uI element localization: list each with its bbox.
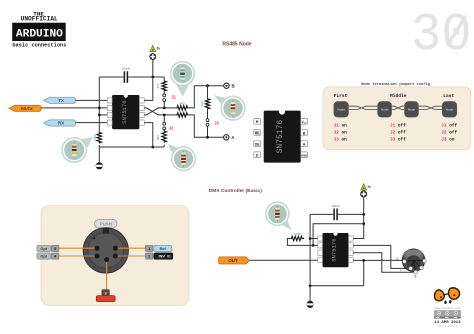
svg-text:OUT: OUT <box>228 258 238 263</box>
wire left bus down <box>98 77 100 132</box>
wire Vcc to RE/DE bus <box>313 224 364 246</box>
XLR female pin hole 3 <box>104 257 109 262</box>
wire ground stub <box>98 147 100 162</box>
wire to pin 1 <box>118 247 146 249</box>
NODE TERMINATION PANEL <box>323 82 471 150</box>
XLR female orientation dot <box>93 237 96 240</box>
wire rail to R1 <box>163 77 165 81</box>
svg-text:Last: Last <box>443 93 454 99</box>
XLR male spokes <box>404 260 424 272</box>
junction rail/+5V <box>151 76 154 79</box>
wire left bus DMX <box>309 214 311 285</box>
svg-text:470: 470 <box>156 83 160 88</box>
wire bottom rail DMX <box>310 285 364 287</box>
svg-text:J3 on: J3 on <box>441 138 455 143</box>
fox logo left eye <box>444 301 446 304</box>
capacitor C2 100nF plates DMX <box>334 209 337 221</box>
XLR male pin 4 <box>420 266 424 270</box>
svg-text:J3: J3 <box>214 120 219 125</box>
wire OUT to pin4 <box>249 259 317 261</box>
jumper J1 <box>163 91 166 106</box>
wire R4 to bottom rail <box>163 145 165 147</box>
svg-text:5: 5 <box>54 247 56 251</box>
svg-text:100nF: 100nF <box>122 67 131 71</box>
svg-text:10k0: 10k0 <box>93 134 97 141</box>
junction GND branch <box>362 259 365 262</box>
svg-text:SN75176: SN75176 <box>276 120 285 154</box>
junction bottom rail / GND pin <box>151 146 154 149</box>
wire pin5 GND to XLR pin1 <box>353 259 402 261</box>
tag INV <box>154 253 173 259</box>
node box Middle 2 <box>404 101 418 117</box>
junction bottom rail DMX <box>309 284 312 287</box>
CC license badge <box>434 310 461 318</box>
wire bus to bottom rail <box>98 145 100 147</box>
XLR male pin 5 <box>423 259 427 263</box>
fox logo brow line <box>444 294 449 296</box>
callout C3 magnifier (560 resistor) <box>168 144 196 171</box>
svg-text:SN75176: SN75176 <box>331 238 338 262</box>
svg-text:INV: INV <box>159 255 166 259</box>
svg-text:J1: J1 <box>171 95 176 100</box>
pinout pin 7 box B <box>301 130 308 136</box>
IC U1 right pin boxes <box>139 98 144 125</box>
node box First <box>334 101 349 117</box>
panel background <box>323 87 471 150</box>
tag number 4 <box>51 253 59 259</box>
svg-text:RX/TX: RX/TX <box>21 106 33 111</box>
capacitor C1 100nF plates <box>124 71 127 83</box>
pill label RX/TX <box>9 105 41 111</box>
wire +5V stub down DMX <box>363 197 365 214</box>
junction rail/+5V DMX <box>362 213 365 216</box>
fox logo left ear <box>434 290 444 301</box>
tag Opt (pin5) <box>37 245 51 251</box>
ground symbol <box>96 162 103 169</box>
pinout pin 2 box RE <box>254 130 261 136</box>
svg-text:Node: Node <box>408 108 416 112</box>
latch notch <box>103 228 109 234</box>
svg-text:A: A <box>231 135 235 140</box>
IC U2 right pin boxes <box>349 236 354 263</box>
svg-text:100nF: 100nF <box>331 204 340 208</box>
svg-text:basic connections: basic connections <box>12 42 66 48</box>
wire pair top line <box>164 107 176 109</box>
IC pinout SN75176 body <box>264 109 301 163</box>
svg-text:R: R <box>256 120 259 124</box>
XLR female pin hole 1 <box>113 246 118 251</box>
svg-text:B: B <box>232 84 236 89</box>
junction B rail / termination <box>206 84 209 87</box>
svg-text:A: A <box>303 142 306 146</box>
wire RX to pin4 <box>75 122 107 124</box>
wire pin6 A to XLR pin3 <box>353 253 413 273</box>
wire to pin 3 <box>106 262 108 290</box>
pinout pin 8 box Vcc <box>301 119 308 125</box>
XLR male connector shell <box>402 249 425 272</box>
junction RE/DE bus <box>312 244 315 247</box>
fox logo right ear dot <box>453 294 455 296</box>
IC U2 SN75176 body DMX <box>323 232 349 268</box>
wire pin7 B to XLR pin2 <box>353 245 409 268</box>
svg-text:5v: 5v <box>368 185 372 189</box>
svg-text:5v: 5v <box>157 46 161 50</box>
svg-text:DE: DE <box>255 142 260 146</box>
tag number 1 <box>145 245 153 251</box>
svg-text:J2 off: J2 off <box>390 131 406 136</box>
wire Vcc rail DMX <box>310 213 364 215</box>
XLR female pin hole 5 <box>95 246 100 251</box>
svg-text:Ref: Ref <box>160 247 167 251</box>
wire pair bottom line <box>164 114 176 116</box>
DMX SECTION <box>209 184 427 308</box>
big grey number 30 <box>411 5 471 65</box>
svg-text:2: 2 <box>148 255 150 259</box>
XLR male pin 2 <box>409 267 413 271</box>
resistor R3 120 zigzag <box>205 98 209 109</box>
XLR female pin hole 2 <box>113 254 118 259</box>
HEADER <box>12 5 471 65</box>
svg-text:J2: J2 <box>169 125 174 130</box>
svg-text:54Ω: 54Ω <box>179 102 185 106</box>
wire DE stub <box>99 114 107 116</box>
pinout pin 1 box R <box>254 119 261 125</box>
node box Middle 1 <box>377 101 391 117</box>
twisted pair First-Middle <box>349 106 378 109</box>
svg-text:560: 560 <box>156 135 160 140</box>
tag number 5 <box>51 245 59 251</box>
callout C2 magnifier (10k resistor) <box>61 137 93 163</box>
svg-text:Opt: Opt <box>40 255 47 259</box>
tag Opt (pin4) <box>37 253 51 259</box>
tag red pin3 <box>96 296 115 302</box>
FOOTER <box>434 288 461 328</box>
svg-text:PUSH: PUSH <box>100 222 112 227</box>
IC U2 left pin boxes <box>318 236 323 263</box>
svg-text:J1 off: J1 off <box>441 124 457 129</box>
jumper J2 <box>163 115 166 130</box>
wire Vcc down to pin8 <box>353 214 364 238</box>
wire termination top stub <box>207 86 209 99</box>
svg-text:Opt: Opt <box>40 247 47 251</box>
svg-text:RX: RX <box>58 121 64 126</box>
power +5V triangle DMX <box>361 184 367 190</box>
resistor R5 54ohm top zigzag <box>176 106 188 110</box>
PUSH latch button <box>95 219 117 228</box>
svg-text:RS485 Node: RS485 Node <box>222 42 251 48</box>
twisted pair Middle-Last <box>419 106 442 109</box>
callout C5 magnifier (100 resistor) <box>265 202 291 231</box>
wire TX to pin1 <box>75 99 107 101</box>
jumper J3 <box>206 109 209 137</box>
svg-text:GND: GND <box>301 153 307 157</box>
svg-text:ARDUINO: ARDUINO <box>16 29 63 41</box>
wire Vcc rail top <box>99 76 164 78</box>
junction pair bottom / J2 branch <box>163 114 166 117</box>
pinout pin 3 box DE <box>254 141 261 147</box>
svg-text:J1 off: J1 off <box>390 124 406 129</box>
pinout pin 6 box A <box>301 141 308 147</box>
pill label OUT <box>219 257 250 264</box>
svg-text:120: 120 <box>200 101 204 106</box>
logo black box <box>12 23 65 41</box>
IC U1 SN75176 body <box>112 94 139 130</box>
svg-text:1: 1 <box>396 256 398 260</box>
svg-text:100Ω: 100Ω <box>294 232 302 236</box>
node box Last <box>442 101 457 117</box>
junction bus/DE <box>98 114 101 117</box>
power +5V node circle <box>150 53 156 59</box>
svg-text:J3 on: J3 on <box>334 138 348 143</box>
wire R7 left loop to pin2 <box>287 239 317 246</box>
junction A rail / termination <box>206 136 209 139</box>
twisted pair Middle1-Middle2 <box>392 106 405 109</box>
junction Vcc / RE-DE branch <box>362 222 365 225</box>
pinout pin 5 box GND <box>301 152 308 158</box>
terminal A <box>224 135 229 140</box>
svg-text:RE: RE <box>255 131 260 135</box>
wire GND pin5 down <box>144 123 153 147</box>
svg-text:J2 off: J2 off <box>441 131 457 136</box>
callout C4 magnifier (120 resistor) <box>214 95 246 121</box>
fox logo right eye <box>449 300 451 303</box>
junction pair top / J1 branch <box>163 107 166 110</box>
svg-text:J3 off: J3 off <box>390 138 406 143</box>
svg-text:J2 on: J2 on <box>334 131 348 136</box>
wire bus stub to pin1 <box>310 238 318 240</box>
wire pair top to B rail <box>188 86 224 108</box>
resistor R6 54ohm bottom zigzag <box>176 113 188 117</box>
XLR PINOUT PANEL <box>37 206 189 306</box>
svg-text:ver 1 rev 2: ver 1 rev 2 <box>437 324 458 328</box>
RS485 NODE SECTION <box>9 42 252 172</box>
svg-text:Node: Node <box>337 108 345 112</box>
svg-text:Node termination jumpers confi: Node termination jumpers config <box>361 82 430 87</box>
fox logo left ear dot <box>440 296 442 298</box>
callout C1 magnifier (470 resistor) <box>170 61 195 97</box>
svg-text:TX: TX <box>58 98 64 103</box>
ground symbol DMX <box>307 301 314 308</box>
XLR female connector shell <box>83 228 128 273</box>
power +5V triangle <box>150 45 156 51</box>
IC U1 left pin boxes <box>107 98 112 125</box>
svg-text:J1 on: J1 on <box>334 124 348 129</box>
svg-text:3: 3 <box>105 291 107 295</box>
pinout pin 4 box D <box>254 152 261 158</box>
wire twisted pair crossing <box>144 108 164 115</box>
panel background <box>41 206 189 306</box>
junction bus pin1 row <box>309 237 312 240</box>
pill label RX <box>44 120 76 126</box>
resistor R2 10k0 zigzag <box>97 132 101 144</box>
fox logo right ear <box>448 288 459 299</box>
svg-text:3: 3 <box>414 274 416 278</box>
wire to pin 4 <box>59 255 95 257</box>
power +5V node circle DMX <box>360 191 367 198</box>
svg-text:2: 2 <box>400 267 402 271</box>
XLR male pin 1 <box>403 260 407 264</box>
svg-text:SN75176: SN75176 <box>121 100 128 124</box>
tag Ref <box>154 245 172 251</box>
svg-text:First: First <box>334 93 348 99</box>
svg-text:Node: Node <box>446 108 454 112</box>
svg-text:1: 1 <box>148 247 150 251</box>
svg-text:B: B <box>303 131 306 135</box>
resistor R1 470 zigzag <box>162 81 166 92</box>
svg-text:30: 30 <box>411 5 471 65</box>
svg-text:www.pighixxx.com: www.pighixxx.com <box>435 306 460 310</box>
pill label TX <box>44 97 76 103</box>
svg-text:D: D <box>256 154 259 158</box>
tag number 3 <box>102 290 109 296</box>
wire to pin 2 <box>118 255 146 257</box>
wire RX/TX to bus <box>41 107 107 109</box>
slash of zero <box>447 16 465 46</box>
svg-text:Middle: Middle <box>390 93 407 99</box>
svg-text:Node: Node <box>381 108 389 112</box>
tag number 2 <box>145 253 153 259</box>
PINOUT DIAGRAM <box>254 109 308 163</box>
XLR female pin hole 4 <box>95 254 100 259</box>
terminal B <box>224 83 229 88</box>
wire ground stub DMX <box>309 286 311 301</box>
svg-text:UNOFFICIAL: UNOFFICIAL <box>21 16 58 23</box>
wire pair bottom to A rail <box>188 115 224 137</box>
wire Vcc pin8 up <box>144 77 153 100</box>
XLR male pin 3 <box>414 270 418 274</box>
wire to pin 5 <box>59 247 95 249</box>
junction bus/RE <box>98 107 101 110</box>
wire GND down <box>363 260 365 285</box>
resistor R7 100ohm zigzag <box>291 236 304 240</box>
wire bottom rail <box>99 146 164 148</box>
svg-text:DMX Controller (Basic): DMX Controller (Basic) <box>209 188 263 194</box>
resistor R4 560 zigzag <box>162 130 166 142</box>
wire +5V stub down <box>152 60 154 77</box>
